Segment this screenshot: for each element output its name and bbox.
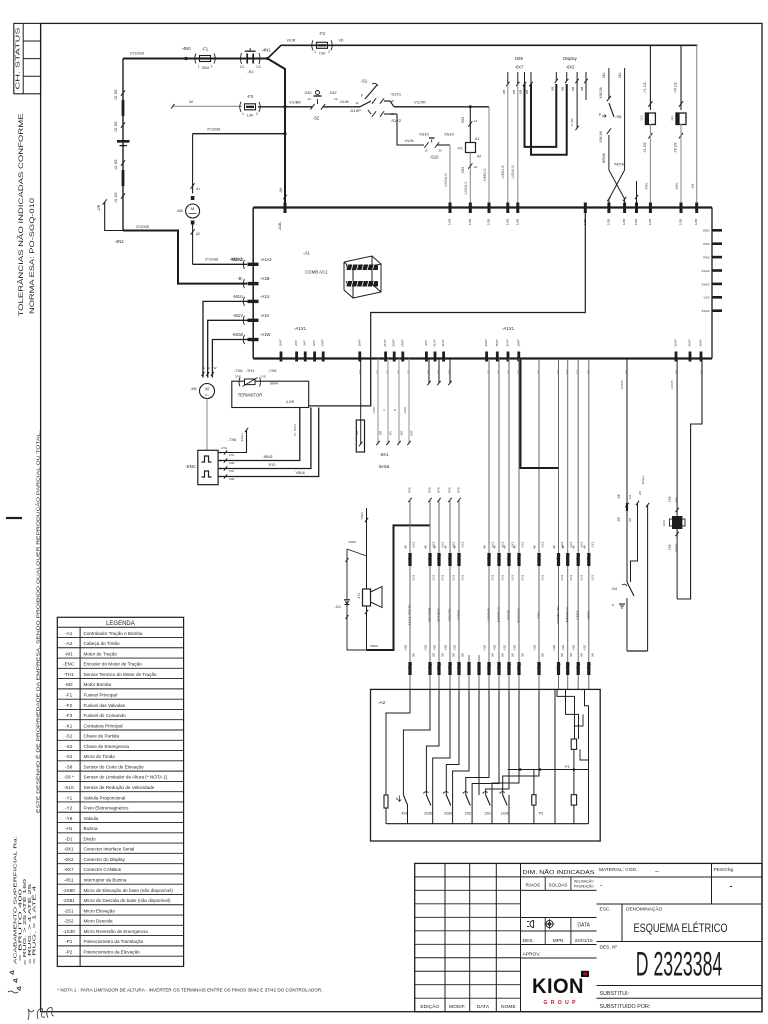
svg-text:-1X3: -1X3 [569,575,573,582]
svg-text:3/B: 3/B [550,87,554,92]
svg-text:-A1X1: -A1X1 [294,326,307,331]
svg-text:-1X3: -1X3 [491,575,495,582]
svg-text:GND: GND [229,462,235,465]
svg-text:9/47: 9/47 [312,340,316,346]
svg-text:-H1: -H1 [65,826,73,831]
svg-text:DIM. NÃO INDICADAS: DIM. NÃO INDICADAS [523,869,596,876]
svg-text:-X20: -X20 [444,645,448,652]
svg-text:-1X3: -1X3 [501,575,505,582]
svg-text:1S30: 1S30 [500,812,508,816]
svg-text:-A1B-: -A1B- [278,221,282,231]
svg-text:Micro de Elevação de base (não: Micro de Elevação de base (não disponíve… [84,888,174,893]
svg-text:ESTE DESENHO É DE PROPRIEDADE: ESTE DESENHO É DE PROPRIEDADE DA EMPRESA… [35,431,40,813]
svg-text:Chave de Emergencia: Chave de Emergencia [84,744,130,749]
svg-text:-A1V: -A1V [260,313,270,318]
svg-text:2Y1OG8: 2Y1OG8 [205,258,218,262]
svg-text:XS10: XS10 [419,132,430,137]
svg-text:BCO/AZUL: BCO/AZUL [517,607,521,623]
svg-text:Valvula: Valvula [84,816,99,821]
svg-text:2/B: 2/B [512,90,516,95]
svg-text:-X20: -X20 [483,645,487,652]
svg-text:5/6: 5/6 [569,653,573,657]
svg-text:-1X3: -1X3 [580,575,584,582]
svg-text:-2S2: -2S2 [64,919,74,924]
svg-text:1/GND: 1/GND [675,544,679,553]
svg-text:-X1 9/2: -X1 9/2 [114,121,118,132]
svg-text:-M1W: -M1W [232,332,243,337]
svg-text:-1X3: -1X3 [521,542,525,549]
svg-text:10: 10 [355,101,359,105]
svg-text:A1: A1 [196,187,200,191]
svg-text:Serial: Serial [379,464,390,469]
svg-text:1/3: 1/3 [628,495,632,499]
svg-text:Sensor de Redução de Velocidad: Sensor de Redução de Velocidade [84,785,155,790]
svg-text:-1X3: -1X3 [461,575,465,582]
svg-text:P2: P2 [539,812,543,816]
svg-text:1: 1 [314,50,316,54]
svg-text:VD/M: VD/M [348,540,356,544]
svg-text:-2/R: -2/R [97,204,101,211]
svg-text:SOLDAS: SOLDAS [548,883,567,888]
svg-text:1/2B: 1/2B [694,219,698,225]
svg-text:LARANJA: LARANJA [487,607,491,622]
svg-text:-S2: -S2 [313,116,320,121]
svg-text:-X20: -X20 [552,645,556,652]
svg-text:3/YD: 3/YD [268,463,276,467]
svg-text:L1A: L1A [670,115,674,120]
svg-text:Freio Eletromagnetico: Freio Eletromagnetico [84,806,129,811]
svg-text:-X8: -X8 [617,494,621,499]
svg-text:3/B: 3/B [571,87,575,92]
svg-text:TERMISTOR: TERMISTOR [238,393,263,398]
svg-text:KION: KION [532,975,584,998]
svg-text:A1: A1 [475,137,479,141]
svg-text:-F1: -F1 [65,692,72,697]
svg-text:4/6: 4/6 [552,545,556,549]
svg-text:-S10: -S10 [64,785,74,790]
svg-text:M2/M: M2/M [370,644,378,648]
svg-text:P1: P1 [565,765,569,769]
svg-text:AMARELO: AMARELO [497,607,501,623]
svg-text:-7X6: -7X6 [668,544,672,551]
svg-text:4/6: 4/6 [561,545,565,549]
svg-text:5/6: 5/6 [590,653,594,657]
svg-text:19/47: 19/47 [357,339,361,347]
svg-text:5/6: 5/6 [511,653,515,657]
svg-text:-7X6: -7X6 [668,496,672,503]
svg-text:Controlador Tração e Bomba: Controlador Tração e Bomba [84,631,143,636]
svg-text:-D1: -D1 [335,605,341,609]
svg-text:1/2B: 1/2B [515,219,519,225]
svg-text:2: 2 [328,50,330,54]
svg-text:1/2B: 1/2B [505,219,509,225]
svg-text:INCLINAÇÃO: INCLINAÇÃO [574,879,594,884]
svg-text:2Y1OG9: 2Y1OG9 [130,52,144,56]
svg-text:7,5A: 7,5A [319,52,326,56]
svg-text:-X20: -X20 [493,645,497,652]
svg-text:-A1: -A1 [303,251,310,256]
svg-text:COMB AC1: COMB AC1 [305,270,328,275]
svg-text:5/6: 5/6 [441,653,445,657]
svg-text:1/2B: 1/2B [634,219,638,225]
svg-text:XS2: XS2 [461,167,465,174]
svg-text:-S1XP: -S1XP [349,108,361,113]
svg-text:-X1 9/2: -X1 9/2 [114,192,118,203]
svg-text:Sensor do Limitador de Altura: Sensor do Limitador de Altura (* NOTA 1) [84,775,168,780]
svg-text:Micro de Descida de base (não: Micro de Descida de base (não disponível… [84,898,172,903]
svg-text:Cabeça do Timão: Cabeça do Timão [84,641,120,646]
svg-text:5/6: 5/6 [461,653,465,657]
svg-text:1: 1 [242,112,244,116]
svg-text:2A: 2A [474,165,478,169]
svg-text:SUBSTITUI:: SUBSTITUI: [600,991,630,997]
svg-text:M: M [191,206,194,211]
svg-text:41/47: 41/47 [433,339,437,347]
svg-text:-S4: -S4 [65,754,73,759]
svg-text:MARROM: MARROM [428,608,432,623]
svg-text:-M2: -M2 [176,208,184,213]
svg-text:V/BR/U3: V/BR/U3 [483,168,487,181]
svg-text:36/47: 36/47 [699,339,703,347]
svg-text:-A1W: -A1W [260,332,271,337]
svg-text:1: 1 [198,65,200,69]
svg-text:Conector CANBus: Conector CANBus [84,867,122,872]
svg-text:Fusivel do Comando: Fusivel do Comando [84,713,127,718]
svg-text:VERDE: VERDE [457,610,461,621]
svg-text:-M1: -M1 [190,386,198,391]
svg-text:-A2: -A2 [65,641,73,646]
svg-text:Chave de Partida: Chave de Partida [84,734,120,739]
svg-text:V/L/VR: V/L/VR [414,101,426,105]
svg-text:VD/M5: VD/M5 [620,380,624,390]
svg-text:1,5A: 1,5A [247,114,254,118]
svg-text:-A1U: -A1U [260,294,270,299]
svg-text:2S4/2: 2S4/2 [702,282,710,286]
svg-text:AMARELO: AMARELO [565,607,569,623]
svg-text:-H1: -H1 [357,593,361,599]
svg-text:-1X3: -1X3 [511,575,515,582]
svg-text:Micro do Timão: Micro do Timão [84,754,116,759]
svg-text:-A1B-: -A1B- [260,276,271,281]
svg-text:-A1A2: -A1A2 [260,257,272,262]
svg-text:4/6: 4/6 [453,545,457,549]
svg-text:-1X3: -1X3 [541,575,545,582]
svg-text:4/47: 4/47 [424,340,428,346]
svg-text:DES.: DES. [523,938,534,944]
svg-text:-Y1: -Y1 [65,795,73,800]
svg-text:AZUL: AZUL [537,611,541,619]
svg-text:V/L/BR: V/L/BR [289,101,301,105]
svg-text:33/47: 33/47 [484,339,488,347]
svg-text:V/L/R: V/L/R [287,39,296,43]
svg-text:-A1X1: -A1X1 [502,326,515,331]
svg-text:-F2: -F2 [65,703,72,708]
svg-text:-S1X2: -S1X2 [390,118,402,123]
svg-text:2/3: 2/3 [628,518,632,522]
svg-text:-4N1: -4N1 [261,48,271,53]
svg-text:C 3/C: C 3/C [570,117,574,126]
svg-text:Potenciometro da Elevação: Potenciometro da Elevação [84,949,141,954]
svg-text:-1X3: -1X3 [452,575,456,582]
svg-text:-1X3: -1X3 [441,575,445,582]
svg-text:2S80: 2S80 [424,812,432,816]
svg-text:Fusivel Principal: Fusivel Principal [84,692,117,697]
svg-text:35/47: 35/47 [495,339,499,347]
svg-text:-Y1 1/2: -Y1 1/2 [643,82,647,93]
svg-text:4/6: 4/6 [533,545,537,549]
svg-text:-2S1: -2S1 [64,908,74,913]
svg-text:Y/GN: Y/GN [360,512,364,519]
svg-text:DES. Nº: DES. Nº [600,945,618,951]
svg-text:DATA: DATA [477,1004,490,1010]
svg-text:Encoder do Motor de Tração: Encoder do Motor de Tração [84,662,143,667]
svg-text:4/6: 4/6 [493,545,497,549]
svg-text:Y/BU6: Y/BU6 [295,471,304,475]
svg-text:4/B/L: 4/B/L [644,182,648,190]
svg-text:U/BR/U5: U/BR/U5 [501,165,505,178]
svg-text:-6X1: -6X1 [64,847,74,852]
svg-text:-ENC: -ENC [63,662,75,667]
svg-text:1A: 1A [474,119,478,123]
svg-text:-Y6 2/2: -Y6 2/2 [674,142,678,153]
svg-text:-X20: -X20 [572,645,576,652]
svg-text:-Y6: -Y6 [65,816,73,821]
svg-text:L1A: L1A [640,115,644,120]
svg-text:4/6: 4/6 [513,545,517,549]
svg-text:-P1: -P1 [65,939,73,944]
svg-text:-M2A2: -M2A2 [230,257,243,262]
svg-text:A2: A2 [477,155,481,159]
svg-text:EV6: EV6 [662,520,666,526]
svg-text:-X20: -X20 [533,645,537,652]
svg-text:-K1: -K1 [457,147,463,151]
svg-text:-X20: -X20 [404,645,408,652]
svg-text:-1X3: -1X3 [590,575,594,582]
svg-text:1/2B: 1/2B [679,219,683,225]
svg-text:-P2: -P2 [65,949,73,954]
svg-text:2/B: 2/B [525,90,529,95]
svg-text:8/W: 8/W [410,430,414,435]
svg-text:-7X6: -7X6 [234,368,243,373]
svg-text:4.2/R: 4.2/R [286,400,295,404]
svg-text:-7X6: -7X6 [268,368,277,373]
svg-text:VIOLETA: VIOLETA [448,608,452,622]
svg-text:-X20: -X20 [424,645,428,652]
svg-text:-S10: -S10 [430,155,440,160]
svg-text:U: U [203,366,205,370]
svg-text:4S1: 4S1 [401,812,407,816]
svg-text:5/YE: 5/YE [448,487,452,493]
svg-text:1/2B: 1/2B [468,219,472,225]
svg-text:2Y1OG5: 2Y1OG5 [136,225,149,229]
svg-text:LEGENDA: LEGENDA [106,621,135,627]
svg-text:Conector do Display: Conector do Display [84,857,126,862]
svg-text:5/6: 5/6 [541,653,545,657]
svg-text:21/47: 21/47 [383,339,387,347]
svg-text:4/B/L: 4/B/L [675,182,679,190]
svg-text:-X20: -X20 [582,645,586,652]
svg-text:-6X7: -6X7 [64,867,74,872]
svg-text:30: 30 [438,149,442,153]
svg-text:330A: 330A [202,66,210,70]
svg-text:2/B: 2/B [502,90,506,95]
svg-text:2S2: 2S2 [465,812,471,816]
svg-text:2S1: 2S1 [484,812,490,816]
svg-text:XS6 2/6: XS6 2/6 [599,87,603,99]
svg-text:NOME: NOME [501,1004,516,1010]
svg-text:1/2B: 1/2B [648,219,652,225]
svg-text:10: 10 [424,149,428,153]
svg-text:C2: C2 [256,65,260,69]
svg-text:-B+: -B+ [279,187,283,192]
svg-text:4/6: 4/6 [503,545,507,549]
svg-text:5/6: 5/6 [491,653,495,657]
svg-text:VD: VD [339,39,344,43]
svg-text:4/6: 4/6 [582,545,586,549]
svg-text:M: M [205,387,209,392]
svg-text:3/B: 3/B [561,87,565,92]
svg-text:1/B: 1/B [355,431,359,435]
svg-text:C1: C1 [240,65,244,69]
svg-text:X32: X32 [304,90,312,95]
svg-text:-K1: -K1 [247,69,254,74]
svg-text:32/47: 32/47 [674,339,678,347]
svg-text:-Y1 2/2: -Y1 2/2 [643,142,647,153]
svg-text:24/L(-): 24/L(-) [240,433,244,442]
svg-text:U/GN/U5: U/GN/U5 [511,165,515,179]
svg-text:-S2: -S2 [65,744,73,749]
svg-text:P: P [361,94,363,98]
svg-text:5/6: 5/6 [580,653,584,657]
svg-text:39/47: 39/47 [516,339,520,347]
svg-text:-4S1: -4S1 [64,878,74,883]
svg-text:5/YE: 5/YE [437,487,441,493]
svg-text:1/YE: 1/YE [229,454,235,457]
svg-text:W: W [214,366,217,370]
svg-text:Contatora Principal: Contatora Principal [84,723,123,728]
svg-text:5/6: 5/6 [521,653,525,657]
svg-text:34/47: 34/47 [688,339,692,347]
svg-text:5/YE: 5/YE [408,487,412,493]
svg-text:NORMA ESA: PO-SGQ-010: NORMA ESA: PO-SGQ-010 [29,198,36,314]
svg-text:CH. STATUS: CH. STATUS [15,27,21,90]
svg-text:Motor Bomba: Motor Bomba [84,682,112,687]
svg-text:BRANCO: BRANCO [437,608,441,622]
svg-text:-X20: -X20 [513,645,517,652]
svg-text:5/YE: 5/YE [457,487,461,493]
svg-text:-6X2: -6X2 [566,65,576,70]
svg-text:V/L/M: V/L/M [405,139,414,143]
svg-text:CINZA: CINZA [576,609,580,619]
svg-text:V/RD: V/RD [372,406,376,414]
svg-text:* NOTA 1 - PARA LIMITADOR DE A: * NOTA 1 - PARA LIMITADOR DE ALTURA - IN… [57,988,322,993]
svg-text:4/6: 4/6 [444,545,448,549]
svg-text:-F1: -F1 [202,47,209,52]
svg-text:4/Y: 4/Y [389,431,393,435]
svg-text:DATA: DATA [577,922,590,928]
svg-text:5/6: 5/6 [501,653,505,657]
svg-text:-: - [730,882,733,891]
svg-text:3/B: 3/B [580,87,584,92]
svg-text:-S1: -S1 [361,79,368,84]
svg-text:-7X6: -7X6 [228,437,237,442]
svg-text:2/R: 2/R [379,431,383,435]
svg-text:-M1U: -M1U [233,294,243,299]
svg-text:-X1 9/2: -X1 9/2 [114,89,118,100]
svg-text:12/47: 12/47 [279,339,283,347]
svg-text:B: B [393,409,397,411]
svg-text:13/47: 13/47 [321,339,325,347]
svg-text:-6X1: -6X1 [380,452,390,457]
svg-text:EDIÇÃO: EDIÇÃO [420,1003,439,1010]
svg-text:1/2B: 1/2B [448,219,452,225]
svg-text:-S4: -S4 [611,586,618,591]
svg-text:1/YE: 1/YE [260,375,266,379]
svg-text:4/6: 4/6 [424,545,428,549]
svg-text:Micro Descida: Micro Descida [84,919,114,924]
svg-text:-6X2: -6X2 [64,857,74,862]
svg-text:Fusivel das Valvulas: Fusivel das Valvulas [84,703,126,708]
svg-text:XS2: XS2 [461,117,465,124]
svg-text:GND: GND [229,478,235,481]
svg-text:24/L: 24/L [618,72,622,78]
svg-text:PESO:kg: PESO:kg [714,867,734,873]
svg-text:Conector Interface Serial: Conector Interface Serial [84,847,135,852]
svg-text:A2: A2 [196,232,200,236]
svg-text:5/6: 5/6 [432,653,436,657]
svg-text:1/YE: 1/YE [221,446,227,450]
svg-text:-1X3: -1X3 [560,575,564,582]
svg-text:P9/2: P9/2 [703,256,710,260]
svg-text:VD/R5: VD/R5 [670,380,674,389]
svg-text:P/FUNDIÇÃO: P/FUNDIÇÃO [574,883,594,888]
svg-text:DENOMINAÇÃO: DENOMINAÇÃO [626,906,663,913]
svg-text:–: – [655,868,659,875]
svg-text:-X20: -X20 [453,645,457,652]
svg-text:-1X3: -1X3 [590,542,594,549]
svg-text:G R O U P: G R O U P [544,1000,577,1006]
svg-text:5/YE: 5/YE [428,487,432,493]
svg-text:V/GN/U1: V/GN/U1 [464,181,468,194]
svg-text:ESC.: ESC. [600,907,611,913]
svg-text:= RUG. > 1 ATÉ 4: = RUG. > 1 ATÉ 4 [32,884,37,964]
svg-text:A: A [382,409,386,411]
svg-text:5/6: 5/6 [412,653,416,657]
svg-text:W: W [189,99,193,104]
svg-text:2: 2 [211,65,213,69]
svg-text:GND: GND [403,406,407,414]
svg-text:25/47: 25/47 [400,339,404,347]
svg-text:-TH1: -TH1 [64,672,75,677]
svg-text:1/2B: 1/2B [622,219,626,225]
svg-text:V/L/M: V/L/M [340,100,349,104]
svg-text:-4N2: -4N2 [114,239,124,244]
svg-text:5/6: 5/6 [452,653,456,657]
svg-text:-X8: -X8 [617,517,621,522]
svg-text:3S4/2: 3S4/2 [702,309,710,313]
svg-text:-B-: -B- [237,276,243,281]
svg-text:3/47: 3/47 [303,340,307,346]
svg-text:BR/4R: BR/4R [270,382,278,386]
svg-text:Buzina: Buzina [84,826,98,831]
svg-text:-X20: -X20 [433,645,437,652]
svg-text:-TH1: -TH1 [246,368,256,373]
svg-text:2/47: 2/47 [294,340,298,346]
svg-text:MPN: MPN [553,938,564,944]
svg-text:2S1/2: 2S1/2 [702,269,710,273]
svg-text:Micro Reversão de Emergencia: Micro Reversão de Emergencia [84,929,149,934]
svg-text:-S8: -S8 [65,764,73,769]
